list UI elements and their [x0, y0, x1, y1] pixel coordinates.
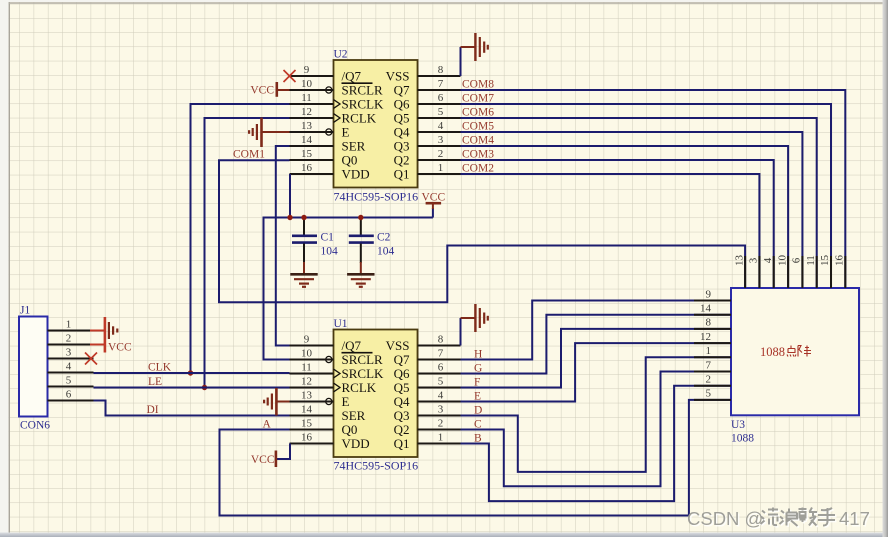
svg-text:CLK: CLK: [148, 362, 172, 374]
op-amp U1 74HC595-SOP16: [326, 318, 418, 473]
svg-text:C2: C2: [377, 232, 391, 244]
svg-text:16: 16: [301, 431, 313, 443]
svg-text:COM5: COM5: [462, 121, 494, 133]
svg-text:5: 5: [706, 388, 712, 400]
svg-text:CSDN @: CSDN @: [687, 508, 763, 529]
U2 left pin stubs, pins 9-16: [290, 64, 334, 174]
svg-text:C1: C1: [321, 232, 335, 244]
wire net C U1.2 to U3: [461, 372, 732, 487]
hanzi of 1088点阵 label: [787, 346, 811, 357]
svg-text:12: 12: [301, 375, 312, 387]
junction rail-C2: [358, 215, 363, 220]
wire net F U1.5 to U3: [461, 329, 732, 388]
power VCC / ground on J1 pins 1-2: [90, 317, 132, 354]
wire LE riser (U2.12): [205, 118, 290, 388]
no-connect X on U2 pin 9: [284, 70, 296, 82]
svg-text:SRCLK: SRCLK: [342, 96, 385, 111]
svg-text:RCLK: RCLK: [342, 380, 377, 395]
svg-text:VCC: VCC: [251, 454, 275, 466]
svg-text:LE: LE: [148, 376, 162, 388]
svg-text:74HC595-SOP16: 74HC595-SOP16: [334, 459, 419, 473]
svg-text:VDD: VDD: [342, 436, 370, 451]
svg-text:COM8: COM8: [462, 79, 494, 91]
svg-text:E: E: [342, 394, 350, 409]
svg-text:8: 8: [438, 64, 444, 76]
svg-text:VCC: VCC: [250, 85, 274, 97]
svg-text:E: E: [342, 124, 350, 139]
svg-text:2: 2: [438, 417, 444, 429]
svg-text:4: 4: [438, 120, 444, 132]
net label B: [474, 433, 482, 445]
svg-text:COM7: COM7: [462, 93, 494, 105]
svg-text:COM4: COM4: [462, 135, 494, 147]
wire COM2 U2.1 to U3: [461, 174, 760, 288]
wire net E U1.4 to U3: [461, 343, 732, 401]
svg-text:16: 16: [834, 255, 846, 267]
svg-text:Q7: Q7: [394, 82, 410, 97]
svg-text:COM2: COM2: [462, 163, 494, 175]
junction LE: [202, 385, 207, 390]
svg-text:12: 12: [700, 331, 711, 343]
svg-text:Q1: Q1: [394, 436, 410, 451]
wire net H U1.7 to U3: [461, 301, 732, 360]
wire CLK riser (U2.11): [191, 104, 290, 373]
svg-text:Q0: Q0: [342, 152, 358, 167]
wire net G U1.6 to U3: [461, 315, 732, 374]
svg-text:13: 13: [301, 120, 313, 132]
ground on U1 pin 13: [264, 388, 289, 416]
net label COM5: [462, 121, 494, 133]
svg-text:10: 10: [301, 347, 313, 359]
svg-text:COM3: COM3: [462, 149, 494, 161]
svg-text:6: 6: [438, 361, 444, 373]
svg-text:Q1: Q1: [394, 166, 410, 181]
svg-text:2: 2: [706, 374, 712, 386]
U2 right pin stubs, pins 8-1: [418, 64, 461, 174]
svg-text:U3: U3: [731, 419, 745, 431]
svg-text:1088: 1088: [760, 345, 785, 359]
svg-text:14: 14: [700, 303, 712, 315]
net label D: [474, 405, 482, 417]
svg-text:104: 104: [321, 246, 339, 258]
svg-text:E: E: [474, 391, 481, 403]
svg-text:Q0: Q0: [342, 422, 358, 437]
ground COM1 on U2 pin 13: [233, 118, 290, 161]
net label H: [474, 349, 482, 361]
wire LE: [94, 376, 290, 388]
svg-text:Q3: Q3: [394, 408, 410, 423]
svg-text:F: F: [474, 377, 480, 389]
svg-text:2: 2: [438, 148, 444, 160]
net label COM3: [462, 149, 494, 161]
svg-text:9: 9: [304, 64, 310, 76]
svg-text:SRCLR: SRCLR: [342, 82, 384, 97]
junction rail-U2.16: [287, 215, 292, 220]
svg-text:U2: U2: [334, 49, 348, 61]
wire COM8 U2.7 to U3: [461, 90, 846, 288]
svg-text:DI: DI: [147, 404, 159, 416]
net label COM2: [462, 163, 494, 175]
wire COM5 U2.4 to U3: [461, 132, 803, 288]
svg-text:9: 9: [304, 333, 310, 345]
U3 top pin stubs 13,3,4,10,6,11,15,16: [733, 255, 845, 289]
svg-text:6: 6: [66, 388, 72, 400]
wire COM4 U2.3 to U3: [461, 146, 789, 288]
svg-text:Q4: Q4: [394, 394, 410, 409]
svg-text:2: 2: [66, 332, 72, 344]
svg-text:Q6: Q6: [394, 96, 410, 111]
net label COM7: [462, 93, 494, 105]
net label F: [474, 377, 480, 389]
svg-text:Q5: Q5: [394, 110, 410, 125]
svg-text:1: 1: [706, 345, 712, 357]
svg-text:Q5: Q5: [394, 380, 410, 395]
svg-text:RCLK: RCLK: [342, 110, 377, 125]
svg-text:1: 1: [66, 318, 72, 330]
svg-text:Q2: Q2: [394, 422, 410, 437]
svg-text:CON6: CON6: [20, 420, 50, 432]
svg-text:J1: J1: [20, 305, 30, 317]
svg-text:VSS: VSS: [386, 68, 410, 83]
svg-text:SER: SER: [342, 408, 366, 423]
svg-text:15: 15: [301, 148, 313, 160]
svg-text:3: 3: [438, 134, 444, 146]
capacitor C1 104 with ground: [290, 218, 338, 287]
junction rail-C1: [301, 215, 306, 220]
svg-text:VDD: VDD: [342, 166, 370, 181]
svg-text:15: 15: [301, 417, 313, 429]
watermark CSDN: [687, 508, 871, 530]
svg-text:VCC: VCC: [108, 342, 132, 354]
svg-text:15: 15: [819, 255, 831, 267]
svg-text:SRCLR: SRCLR: [342, 352, 384, 367]
wire CLK: [94, 362, 290, 374]
svg-text:U1: U1: [334, 318, 348, 330]
wire DI: [94, 401, 290, 417]
svg-text:4: 4: [762, 257, 774, 263]
svg-text:H: H: [474, 349, 482, 361]
wire net A U1.15 to U3 pin5: [220, 400, 732, 516]
svg-text:13: 13: [301, 389, 313, 401]
wire COM7 U2.6 to U3: [461, 104, 832, 288]
svg-text:1: 1: [438, 162, 444, 174]
svg-text:SER: SER: [342, 138, 366, 153]
power VCC on U2 pin 10: [250, 82, 289, 97]
svg-text:COM1: COM1: [233, 149, 265, 161]
svg-text:COM6: COM6: [462, 107, 494, 119]
net label COM6: [462, 107, 494, 119]
net label G: [474, 363, 482, 375]
svg-text:14: 14: [301, 134, 313, 146]
svg-text:16: 16: [301, 162, 313, 174]
svg-text:1: 1: [438, 431, 444, 443]
svg-text:3: 3: [66, 346, 72, 358]
svg-text:7: 7: [438, 347, 444, 359]
svg-text:C: C: [474, 419, 482, 431]
net label E: [474, 391, 481, 403]
svg-text:7: 7: [438, 78, 444, 90]
wire U2.16 VDD riser: [289, 174, 291, 218]
svg-text:7: 7: [706, 359, 712, 371]
svg-text:/Q7: /Q7: [342, 68, 362, 83]
svg-text:11: 11: [805, 255, 817, 266]
svg-text:11: 11: [301, 361, 312, 373]
svg-text:8: 8: [438, 333, 444, 345]
svg-text:Q7: Q7: [394, 352, 410, 367]
connector J1 CON6: [19, 305, 50, 432]
svg-text:5: 5: [438, 375, 444, 387]
svg-text:10: 10: [776, 255, 788, 267]
pseudo hanzi watermark strokes: [762, 509, 837, 528]
svg-text:10: 10: [301, 78, 313, 90]
power VCC above rail: [421, 191, 445, 217]
svg-text:SRCLK: SRCLK: [342, 366, 385, 381]
no-connect X on J1 pin 3: [85, 353, 97, 365]
wire COM3 U2.2 to U3: [461, 160, 774, 288]
svg-text:3: 3: [438, 403, 444, 415]
svg-text:104: 104: [377, 246, 395, 258]
svg-text:Q4: Q4: [394, 124, 410, 139]
U3 left pin stubs 9,14,8,12,1,7,2,5: [694, 288, 731, 400]
capacitor C2 104 with ground: [347, 218, 394, 287]
net label COM4: [462, 135, 494, 147]
svg-text:6: 6: [438, 92, 444, 104]
svg-text:12: 12: [301, 106, 312, 118]
wire net D U1.3 to U3: [461, 357, 732, 472]
svg-text:4: 4: [438, 389, 444, 401]
svg-text:9: 9: [706, 288, 712, 300]
wire cascade U1.9 to U2.14: [276, 146, 290, 346]
dot-matrix U3 1088: [731, 288, 859, 445]
right gray strip: [883, 0, 888, 537]
svg-text:Q3: Q3: [394, 138, 410, 153]
wire VCC rail to U1.10 SRCLR: [264, 218, 433, 360]
svg-text:14: 14: [301, 403, 313, 415]
wire net13 U2.15 to U3 pin13: [219, 160, 745, 302]
power VCC on U1 pin 16 VDD: [251, 444, 290, 468]
svg-text:8: 8: [706, 317, 712, 329]
svg-text:G: G: [474, 363, 482, 375]
net label COM8: [462, 79, 494, 91]
U1 right pin stubs, pins 8-1: [418, 333, 461, 443]
svg-text:5: 5: [66, 374, 72, 386]
svg-text:3: 3: [748, 257, 760, 263]
svg-text:74HC595-SOP16: 74HC595-SOP16: [334, 190, 419, 204]
junction CLK: [188, 370, 193, 375]
svg-text:Q6: Q6: [394, 366, 410, 381]
bottom gray band: [0, 533, 888, 537]
svg-text:11: 11: [301, 92, 312, 104]
svg-text:1088: 1088: [731, 433, 754, 445]
J1 pin stubs 1-6: [48, 318, 94, 400]
wire COM6 U2.5 to U3: [461, 118, 817, 288]
net label C: [474, 419, 482, 431]
svg-text:4: 4: [66, 360, 72, 372]
svg-text:417: 417: [839, 508, 870, 529]
op-amp U2 74HC595-SOP16: [326, 49, 418, 204]
svg-text:A: A: [263, 419, 272, 431]
ground on U2 pin 8 VSS: [461, 33, 488, 76]
svg-text:13: 13: [733, 255, 745, 267]
ground on U1 pin 8 VSS: [461, 304, 488, 346]
wire net B U1.1 to U3: [461, 386, 732, 501]
svg-text:Q2: Q2: [394, 152, 410, 167]
svg-text:D: D: [474, 405, 482, 417]
svg-text:6: 6: [791, 257, 803, 263]
svg-text:5: 5: [438, 106, 444, 118]
svg-text:B: B: [474, 433, 482, 445]
svg-text:/Q7: /Q7: [342, 338, 362, 353]
svg-text:VCC: VCC: [421, 191, 445, 203]
svg-text:VSS: VSS: [386, 338, 410, 353]
U1 left pin stubs, pins 9-16: [290, 333, 334, 443]
